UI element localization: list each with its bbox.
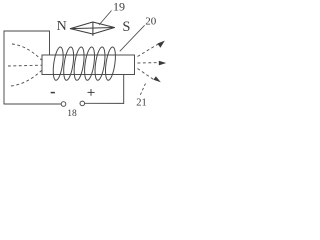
coil turn 5	[93, 46, 106, 80]
svg-text:N: N	[57, 19, 67, 34]
field line right lower	[138, 69, 156, 81]
coil turn 4	[83, 46, 96, 80]
terminal - circle	[61, 102, 66, 107]
wire coil right lead	[123, 75, 125, 104]
field line right middle	[138, 62, 161, 64]
svg-text:21: 21	[136, 98, 147, 109]
arrowhead field E	[159, 61, 166, 66]
wire left vertical	[3, 31, 5, 104]
svg-text:20: 20	[145, 16, 157, 28]
field line left lower	[11, 71, 42, 87]
arrowhead field SE	[153, 76, 160, 82]
battery plus sign	[88, 89, 95, 96]
coil turn 6	[104, 46, 117, 80]
leader line 20	[120, 25, 145, 51]
field line left upper	[12, 44, 42, 60]
leader line 21	[140, 84, 146, 97]
field line left middle	[8, 64, 42, 67]
svg-text:19: 19	[113, 0, 125, 13]
wire coil left lead	[49, 31, 51, 55]
svg-text:18: 18	[67, 109, 77, 119]
leader line 19	[99, 11, 112, 26]
battery minus sign	[51, 92, 55, 94]
arrowhead field NE	[157, 41, 164, 48]
coil turn 2	[62, 46, 75, 80]
core bar 20	[42, 55, 135, 75]
coil turn 3	[72, 46, 85, 80]
compass needle 19	[70, 22, 114, 36]
wire bottom right	[85, 102, 124, 104]
wire top horizontal	[4, 30, 50, 32]
field line right upper	[138, 44, 160, 57]
wire bottom left	[4, 103, 61, 105]
terminal + circle	[80, 101, 85, 106]
svg-text:S: S	[122, 19, 130, 35]
coil turn 1	[52, 46, 65, 80]
